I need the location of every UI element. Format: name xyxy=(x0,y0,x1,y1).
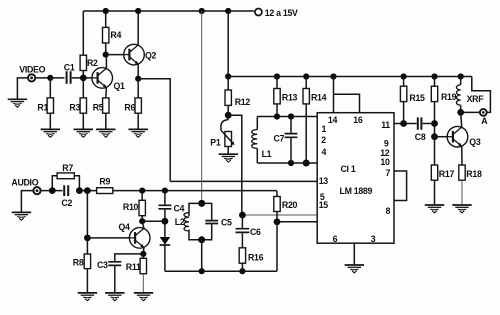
wire R4 to node xyxy=(105,43,107,55)
ground R5 xyxy=(96,129,115,137)
inductor XRF choke xyxy=(456,77,460,113)
svg-text:14: 14 xyxy=(328,115,338,125)
svg-text:LM 1889: LM 1889 xyxy=(340,186,373,196)
node tank1 top R13 xyxy=(274,113,280,119)
wire C1 to Q1 base node xyxy=(72,77,92,79)
wire Q4 emitter down xyxy=(142,248,145,254)
svg-text:13: 13 xyxy=(319,176,329,186)
terminal 12-15V supply xyxy=(255,9,262,16)
resistor R12 xyxy=(225,90,231,105)
wire rail to R4 xyxy=(105,11,107,27)
wire Q1 emitter down to R5 xyxy=(105,87,108,98)
node R4-Q2 base xyxy=(103,52,109,58)
node Q3 base xyxy=(431,133,438,140)
terminal A output xyxy=(480,109,487,116)
capacitor C2 xyxy=(64,185,68,196)
connector video input xyxy=(28,74,35,81)
wire riser from bottom rail to R20 node xyxy=(276,222,278,271)
node rail-oscline xyxy=(199,8,205,14)
wire R10 stub xyxy=(141,191,143,201)
wire R2 to video node xyxy=(82,71,84,78)
node C2 left xyxy=(49,187,56,194)
wire C8 to base node xyxy=(423,123,435,125)
resistor R15 xyxy=(400,86,406,101)
svg-text:R20: R20 xyxy=(282,200,298,210)
wire R8 to ground xyxy=(86,269,88,293)
wire tank1 top xyxy=(257,116,317,118)
svg-text:R3: R3 xyxy=(69,103,80,113)
svg-text:R19: R19 xyxy=(441,92,457,102)
wire R12 to P1 node xyxy=(227,105,229,115)
wire R14 stub xyxy=(305,77,307,89)
resistor R5 xyxy=(103,98,109,113)
transistor Q1 xyxy=(92,68,113,89)
wire XRF node to output terminal xyxy=(461,111,480,113)
svg-text:Q3: Q3 xyxy=(469,137,481,147)
resistor R6 xyxy=(135,98,141,113)
node R12-P1 xyxy=(225,112,232,119)
wire pin 5 line xyxy=(242,214,317,216)
svg-text:R13: R13 xyxy=(282,93,298,103)
svg-text:L1: L1 xyxy=(262,149,272,159)
wire pin 11 line xyxy=(394,123,417,125)
wire pin 13 line xyxy=(170,180,317,182)
node Q4 emitter xyxy=(140,251,146,257)
wire rail down to R12 xyxy=(227,11,229,77)
svg-text:C8: C8 xyxy=(415,132,426,142)
svg-text:2: 2 xyxy=(321,135,326,145)
wire Q2 emitter to pin13 line xyxy=(138,79,170,182)
svg-text:R15: R15 xyxy=(409,93,425,103)
wire Q2 emitter down xyxy=(137,64,139,79)
resistor R10 xyxy=(139,200,145,215)
node C2 right xyxy=(76,187,83,194)
wire R11 to ground xyxy=(142,274,144,293)
node C8-R19 xyxy=(431,120,438,127)
svg-text:C5: C5 xyxy=(221,217,232,227)
node rail2-pin14 xyxy=(330,73,336,79)
wire R10 to collector node xyxy=(141,216,143,222)
resistor R18 xyxy=(459,165,465,180)
wire audio connector to ground xyxy=(21,191,33,212)
node C4 top xyxy=(162,188,168,194)
wire second supply rail xyxy=(228,76,472,78)
wire emitter to C3 xyxy=(115,254,144,261)
wire base node to Q4 xyxy=(87,237,129,239)
wire Q4 collector up xyxy=(142,221,144,228)
svg-text:R5: R5 xyxy=(93,103,104,113)
svg-text:C6: C6 xyxy=(250,227,261,237)
wire base node to R8 xyxy=(86,238,88,254)
ground R11 xyxy=(134,293,153,301)
wire R20 to node xyxy=(276,212,278,222)
capacitor C4 xyxy=(158,191,171,222)
wire R17 stub xyxy=(434,137,436,165)
wire R12 stub top xyxy=(227,77,229,91)
svg-text:A: A xyxy=(481,116,488,126)
node rail2-R15 xyxy=(401,73,407,79)
svg-text:12 a 15V: 12 a 15V xyxy=(265,8,298,18)
wire to pin 14 xyxy=(333,77,335,113)
wire audio connector to C2 node xyxy=(41,190,63,192)
wire pin 15 line xyxy=(277,221,317,223)
wire video connector to ground xyxy=(17,78,28,99)
svg-text:AUDIO: AUDIO xyxy=(11,177,38,187)
node Q2 emitter xyxy=(135,76,141,82)
svg-text:R12: R12 xyxy=(235,97,251,107)
ground R8 xyxy=(78,293,97,301)
resistor R1 xyxy=(47,98,53,113)
ground video input xyxy=(8,99,27,107)
ground R3 xyxy=(74,129,93,137)
node tank1 bottom R14 xyxy=(303,160,310,167)
ground R6 xyxy=(129,129,148,137)
svg-text:R1: R1 xyxy=(37,103,48,113)
capacitor C6 xyxy=(236,215,250,248)
svg-text:Q1: Q1 xyxy=(114,81,126,91)
node rail2-R12 xyxy=(225,73,231,79)
node bottom rail L2 xyxy=(199,268,205,274)
wire video connector to C1 xyxy=(35,77,64,79)
wire R18 to ground xyxy=(461,180,463,204)
ground P1 xyxy=(219,154,238,162)
svg-text:R10: R10 xyxy=(123,202,139,212)
svg-text:C4: C4 xyxy=(174,203,185,213)
svg-text:4: 4 xyxy=(322,147,327,157)
wire R5 ground stub xyxy=(105,113,107,129)
svg-text:16: 16 xyxy=(353,115,363,125)
capacitor C7 xyxy=(285,117,298,164)
wire R1 stub xyxy=(49,78,51,98)
node R15 bottom xyxy=(400,120,407,127)
node rail2-R19 xyxy=(431,73,437,79)
wire R6 ground stub xyxy=(137,113,139,129)
potentiometer P1 xyxy=(221,115,235,153)
svg-text:C7: C7 xyxy=(274,134,285,144)
resistor R8 xyxy=(84,254,90,269)
svg-text:R9: R9 xyxy=(99,176,110,186)
resistor R4 xyxy=(103,27,109,43)
wire Q2 emitter to R6 xyxy=(137,79,139,98)
ground R18 xyxy=(452,205,471,213)
node rail-R12 xyxy=(225,8,231,14)
wire C3 to ground xyxy=(114,266,116,292)
node C4 bottom xyxy=(162,218,169,225)
node R10 top xyxy=(139,188,145,194)
wire R19 stub top xyxy=(434,77,436,87)
node rail2-R13 xyxy=(274,73,280,79)
wire base node to Q3 xyxy=(435,136,448,138)
transistor Q2 xyxy=(124,44,145,65)
resistor R14 xyxy=(303,89,309,104)
svg-text:C1: C1 xyxy=(64,62,75,72)
resistor R2 xyxy=(80,55,86,70)
transistor Q3 xyxy=(447,126,468,147)
node R1 top xyxy=(47,75,53,81)
inductor L1 xyxy=(252,117,258,164)
svg-text:C3: C3 xyxy=(97,260,108,270)
svg-text:15: 15 xyxy=(319,200,329,210)
op-amp/IC CI1 LM1889 box xyxy=(317,113,394,244)
wire Q2 collector to rail xyxy=(137,11,139,45)
node tank2 top xyxy=(198,200,205,207)
tank2 L2 C5 frame xyxy=(189,203,212,239)
node bottom rail R16 xyxy=(239,268,245,274)
wire top supply rail xyxy=(83,10,254,12)
resistor R19 xyxy=(431,86,437,101)
node R8 column top xyxy=(84,187,91,194)
wire Q4 base column xyxy=(86,191,88,238)
node tank2 bottom xyxy=(198,236,205,243)
wire R15 stub top xyxy=(403,77,405,87)
wire audio line to R20 top xyxy=(276,191,278,197)
node rail-Q2 xyxy=(135,8,141,14)
wire R19 down to C8 node xyxy=(434,102,436,124)
node R20 bottom xyxy=(274,218,281,225)
ground IC xyxy=(345,265,364,273)
wire Q3 collector up xyxy=(461,112,462,127)
svg-text:R8: R8 xyxy=(73,258,84,268)
svg-text:Q2: Q2 xyxy=(145,50,157,60)
wire IC ground pin xyxy=(353,243,355,264)
wire P1 wiper to pin5 line xyxy=(228,115,242,215)
wire R17 to ground xyxy=(434,180,436,204)
svg-text:Q4: Q4 xyxy=(119,222,131,232)
wire bottom rail xyxy=(165,270,277,272)
diode D1 xyxy=(160,221,171,271)
wire R14 down to tank bottom xyxy=(305,104,307,163)
wire R11 stub top xyxy=(142,254,144,258)
node Q4 collector xyxy=(139,218,145,224)
wire Q3 emitter to R18 xyxy=(461,146,463,165)
resistor R20 xyxy=(274,197,280,212)
resistor R3 xyxy=(80,98,86,113)
svg-text:R16: R16 xyxy=(248,252,264,262)
svg-text:R18: R18 xyxy=(466,169,482,179)
node tank1 top C7 xyxy=(288,113,294,119)
ground C3 xyxy=(105,293,124,301)
ground audio input xyxy=(12,212,31,220)
wire rail down to R2 xyxy=(82,11,84,55)
node rail2-XRF xyxy=(458,73,464,79)
svg-text:L2: L2 xyxy=(175,217,185,227)
resistor R7 with loop xyxy=(52,173,79,191)
resistor R3 stub xyxy=(82,78,84,98)
wire R16 to bottom rail xyxy=(241,263,243,271)
connector audio input xyxy=(33,187,40,194)
svg-text:R14: R14 xyxy=(311,93,327,103)
svg-text:R17: R17 xyxy=(439,169,455,179)
svg-text:R2: R2 xyxy=(87,58,98,68)
resistor R9 xyxy=(97,188,113,194)
wire collector node to C4 node xyxy=(142,220,165,222)
resistor R13 xyxy=(274,89,280,104)
wire R13 to tank top xyxy=(276,104,278,117)
svg-text:8: 8 xyxy=(386,206,391,216)
svg-text:XRF: XRF xyxy=(467,94,485,104)
svg-text:CI 1: CI 1 xyxy=(341,164,356,174)
resistor R16 xyxy=(239,248,245,263)
wire output bracket from rail xyxy=(472,77,491,113)
svg-text:7: 7 xyxy=(386,168,391,178)
node tank1 bottom C7 xyxy=(288,160,294,166)
inductor L2 xyxy=(184,213,189,231)
wire audio line R9 to R20 xyxy=(113,190,277,192)
svg-text:VIDEO: VIDEO xyxy=(19,64,45,74)
svg-text:C2: C2 xyxy=(61,198,72,208)
node pin5-C6 xyxy=(239,212,246,219)
node XRF-Q3 collector xyxy=(457,109,464,116)
node rail-R4 xyxy=(103,8,109,14)
wire tank1 bottom xyxy=(257,162,317,164)
node rail2-R14 xyxy=(303,73,309,79)
wire pin7-pin8 bracket xyxy=(394,171,407,201)
wire R15 to pin11 node xyxy=(403,102,405,124)
resistor R17 xyxy=(431,165,437,180)
svg-text:10: 10 xyxy=(380,157,390,167)
wire Q1 collector up xyxy=(105,55,107,69)
wire R3 ground stub xyxy=(82,113,84,129)
capacitor C1 xyxy=(67,71,71,84)
svg-text:R4: R4 xyxy=(110,30,121,40)
svg-text:1: 1 xyxy=(322,124,327,134)
capacitor C8 xyxy=(418,117,422,129)
wire R1 to ground xyxy=(49,113,51,129)
svg-text:3: 3 xyxy=(371,234,376,244)
svg-text:11: 11 xyxy=(381,120,390,130)
node Q4 base xyxy=(84,235,91,242)
resistor R11 xyxy=(140,258,146,273)
svg-text:P1: P1 xyxy=(210,138,221,148)
wire tank2 to bottom rail xyxy=(201,240,203,271)
wire C2 node to R9 xyxy=(79,190,96,192)
svg-text:R6: R6 xyxy=(124,103,135,113)
wire node to Q2 base xyxy=(106,54,124,56)
wire R13 stub xyxy=(276,77,278,89)
wire down to Q3 base node xyxy=(434,124,436,137)
wire oscillator line from rail to L2 tank xyxy=(201,11,203,203)
capacitor C5 xyxy=(205,221,218,224)
svg-text:6: 6 xyxy=(333,234,338,244)
node Q1 base xyxy=(80,75,87,82)
capacitor C3 xyxy=(108,262,121,266)
svg-text:R7: R7 xyxy=(62,163,73,173)
ground R1 xyxy=(41,129,60,137)
ground R17 xyxy=(425,205,444,213)
wire to pin 16 xyxy=(334,94,360,113)
svg-text:R11: R11 xyxy=(126,262,141,272)
transistor Q4 xyxy=(129,228,150,249)
